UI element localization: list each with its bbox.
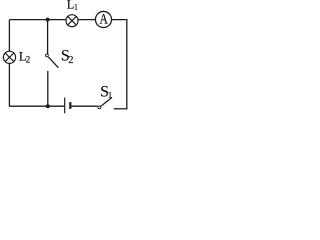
wire S1 right stub (114, 108, 128, 110)
wire top ammeter-to-corner (111, 19, 127, 21)
wire bottom left horizontal (9, 105, 64, 107)
lamp L1 (66, 15, 78, 27)
wire battery-to-S1 (71, 105, 97, 107)
switch S2 (46, 54, 59, 68)
svg-text:2: 2 (68, 55, 73, 66)
wire top lamp-to-ammeter (78, 19, 96, 21)
svg-text:2: 2 (26, 55, 31, 65)
switch S1 (98, 97, 112, 108)
wire left vertical upper (8, 20, 10, 52)
wire top-left horizontal (9, 19, 66, 21)
ammeter U1 (95, 11, 111, 27)
wire left vertical lower (8, 63, 10, 107)
junction bottom (46, 104, 50, 108)
wire middle vertical upper (47, 20, 49, 54)
svg-text:1: 1 (74, 3, 78, 12)
lamp L2 (3, 51, 15, 63)
svg-text:1: 1 (108, 90, 112, 100)
wire right vertical (126, 20, 128, 110)
wire middle vertical lower (47, 71, 49, 106)
junction top (46, 18, 50, 22)
battery B1 (65, 98, 71, 114)
svg-text:A: A (99, 10, 108, 27)
